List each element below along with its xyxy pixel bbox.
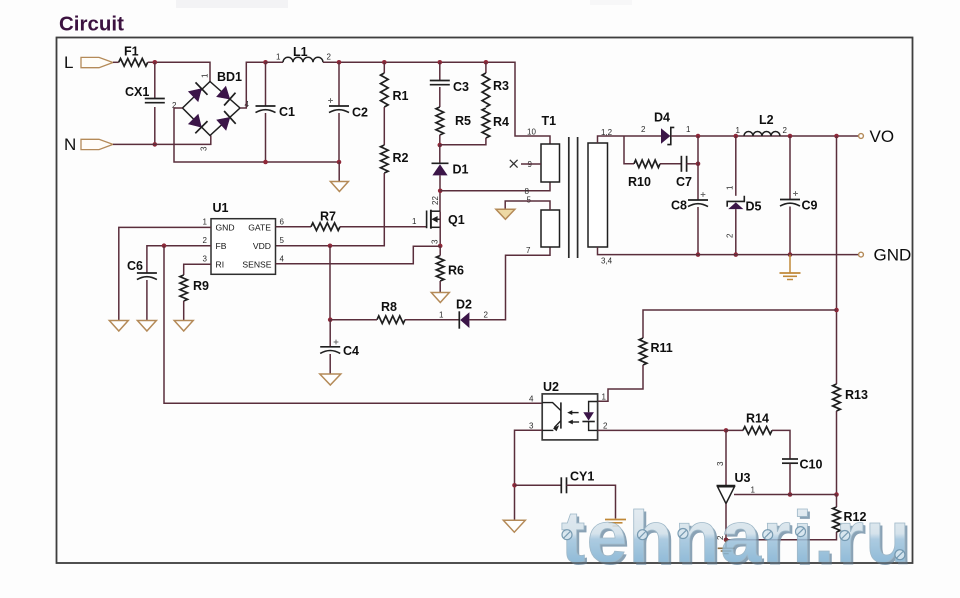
svg-text:2: 2 xyxy=(203,236,208,245)
svg-text:VO: VO xyxy=(870,127,895,146)
svg-text:D5: D5 xyxy=(746,200,762,214)
wire R4 to junction xyxy=(440,138,486,145)
svg-text:D4: D4 xyxy=(654,111,670,125)
diode D5 zener xyxy=(727,196,744,207)
wire U1 pin2 FB xyxy=(147,246,211,273)
top watermark sliver xyxy=(176,0,288,8)
border frame overlay xyxy=(57,38,913,564)
wire junction to R14 xyxy=(726,429,743,431)
wire CX1 bottom lead xyxy=(154,107,156,144)
resistor R4 xyxy=(482,108,490,138)
svg-text:C4: C4 xyxy=(343,344,359,358)
svg-text:C3: C3 xyxy=(453,80,469,94)
wire C9 bottom xyxy=(789,207,791,255)
wire U3 ref down xyxy=(725,430,727,485)
wire U3 earth stem xyxy=(725,540,727,548)
svg-text:CX1: CX1 xyxy=(125,85,149,99)
junction R11 tap xyxy=(834,308,839,313)
junction R13/U3 pin1 xyxy=(834,492,839,497)
ground C6 xyxy=(137,321,156,332)
resistor R7 xyxy=(311,223,340,231)
capacitor C3 xyxy=(430,80,450,82)
svg-text:1: 1 xyxy=(439,311,444,320)
earth ground secondary xyxy=(780,272,801,274)
bridge diode lower-left xyxy=(189,114,202,127)
junction C8/GND rail xyxy=(696,252,701,257)
junction C10/U3 pin1 xyxy=(788,492,793,497)
wire C4 to ground xyxy=(329,354,331,374)
wire T1 secondary bottom GND rail xyxy=(598,247,859,255)
diode D1 xyxy=(432,162,449,164)
wire R10 branch down xyxy=(624,136,634,164)
wire Q1 source to R6 xyxy=(439,246,441,256)
resistor R5 xyxy=(436,107,444,135)
svg-text:3: 3 xyxy=(200,146,209,151)
resistor R8 xyxy=(377,316,405,324)
junction rail/C1 xyxy=(263,60,268,65)
svg-text:C2: C2 xyxy=(352,106,368,120)
svg-text:Circuit: Circuit xyxy=(59,13,124,36)
wire D4 to VO rail xyxy=(671,135,859,137)
svg-text:10: 10 xyxy=(527,128,536,137)
wire rail to R1 xyxy=(383,62,385,73)
wire U1 pin6 to R7 xyxy=(276,226,312,228)
svg-text:C8: C8 xyxy=(671,199,687,213)
junction R5/R4/D1 xyxy=(438,143,443,148)
junction VO/R13 xyxy=(834,134,839,139)
ground T1 pin5 xyxy=(496,209,515,219)
wire R11 to U2 pin1 xyxy=(598,365,643,401)
svg-text:2: 2 xyxy=(726,233,735,238)
svg-text:FB: FB xyxy=(216,241,227,251)
wire U1 pin3 RI xyxy=(184,264,211,275)
svg-text:5: 5 xyxy=(527,196,532,205)
wire L to F1 xyxy=(113,61,119,63)
optocoupler U2 box xyxy=(542,394,597,440)
wire R12 to bottom rail xyxy=(726,532,837,540)
wire C8 column xyxy=(697,136,699,200)
wire R6 to ground xyxy=(439,281,441,292)
svg-text:R8: R8 xyxy=(381,300,397,314)
wire BD1 pin4 up to rail xyxy=(240,62,266,108)
svg-text:R2: R2 xyxy=(393,151,409,165)
svg-text:R14: R14 xyxy=(746,412,769,426)
svg-text:2: 2 xyxy=(783,126,788,135)
junction VO/D5 xyxy=(734,134,739,139)
svg-text:1: 1 xyxy=(726,185,735,190)
svg-text:T1: T1 xyxy=(542,114,557,128)
terminal GND circle xyxy=(859,252,864,257)
ground U2 pin3 xyxy=(503,520,525,532)
svg-text:R13: R13 xyxy=(845,388,868,402)
junction D5/GND rail xyxy=(734,252,739,257)
wire D1 to Q1 drain xyxy=(439,175,441,211)
earth ground U3 xyxy=(718,547,735,549)
junction FB branch xyxy=(162,243,167,248)
svg-text:U1: U1 xyxy=(213,201,229,215)
earth ground CY1 xyxy=(605,519,626,521)
junction C7/C8 column xyxy=(696,162,701,167)
svg-text:1: 1 xyxy=(276,53,281,62)
resistor R11 xyxy=(639,338,647,365)
svg-text:C10: C10 xyxy=(800,458,823,472)
resistor R2 xyxy=(381,145,389,173)
diode D4 xyxy=(661,128,670,143)
svg-text:7: 7 xyxy=(526,246,531,255)
svg-text:VDD: VDD xyxy=(253,241,271,251)
wire rail L1 to corner xyxy=(323,62,550,144)
junction U3 ref xyxy=(724,428,729,433)
wire U3 pin1 xyxy=(734,494,837,496)
wire F1 to BD1 pin1 xyxy=(148,62,210,81)
wire R5 to D1 junction xyxy=(439,135,441,145)
wire junction to R12 xyxy=(836,495,838,508)
wire CY1 left xyxy=(515,484,562,486)
svg-text:3: 3 xyxy=(529,422,534,431)
junction C9/GND rail xyxy=(788,252,793,257)
wire D5 column bottom xyxy=(735,209,737,255)
wire sub-rail ground stem xyxy=(338,162,340,181)
svg-text:6: 6 xyxy=(280,218,285,227)
resistor R12 xyxy=(833,507,841,532)
wire CX1 top lead xyxy=(154,62,156,98)
U1 pin names xyxy=(216,223,272,270)
svg-text:3: 3 xyxy=(716,461,725,466)
svg-text:U3: U3 xyxy=(735,471,751,485)
svg-text:1: 1 xyxy=(602,393,607,402)
resistor R1 xyxy=(381,73,389,107)
wire U1 pin1 to ground xyxy=(119,227,211,320)
wire R2 down to VDD line xyxy=(276,173,385,246)
inductor L1 xyxy=(283,57,323,62)
resistor R13 xyxy=(833,384,841,411)
junction U3 pin2 rail xyxy=(724,538,729,543)
wire rail to C3 xyxy=(439,62,441,80)
junction VO/C8 xyxy=(696,134,701,139)
wire C1 bottom lead xyxy=(265,113,267,162)
junction F1/CX1 xyxy=(153,60,158,65)
wire U2 pin2 to R14 xyxy=(598,429,726,431)
wire C2 top lead xyxy=(338,62,340,106)
svg-text:2: 2 xyxy=(641,125,646,134)
svg-text:22: 22 xyxy=(431,196,440,205)
transformer T1 secondary winding xyxy=(588,143,608,247)
wire C8 bottom xyxy=(697,207,699,255)
wire R13 to junction xyxy=(836,411,838,495)
wire R7 to Q1 gate xyxy=(340,226,427,228)
svg-text:BD1: BD1 xyxy=(217,70,242,84)
wire U2 pin3 xyxy=(515,430,543,519)
schematic border frame xyxy=(57,38,913,564)
wire junction to D1 xyxy=(439,145,441,163)
wire C1 top lead xyxy=(265,62,267,106)
resistor R9 xyxy=(180,275,188,301)
junction CY1 xyxy=(512,483,517,488)
svg-text:GND: GND xyxy=(874,246,912,265)
U2 LED xyxy=(589,402,598,413)
wire R14 to C10 xyxy=(772,430,790,459)
svg-text:N: N xyxy=(64,135,76,154)
bridge diode lower-right xyxy=(217,117,230,130)
junction VO/C9 xyxy=(788,134,793,139)
bridge BD1 diamond xyxy=(183,82,241,136)
svg-text:5: 5 xyxy=(280,236,285,245)
svg-text:1: 1 xyxy=(412,217,417,226)
transistor Q1 xyxy=(426,211,428,229)
junction R8/C4 xyxy=(328,317,333,322)
ground primary sub-rail xyxy=(330,182,348,192)
svg-text:4: 4 xyxy=(529,395,534,404)
svg-text:1: 1 xyxy=(201,73,210,78)
wire C7 to junction xyxy=(686,163,698,165)
junction CX1/N xyxy=(153,142,158,147)
wire R9 to ground xyxy=(183,301,185,320)
wire VO down R13 column xyxy=(836,136,838,384)
svg-text:SENSE: SENSE xyxy=(242,260,271,270)
wire BD1 pin2 to bottom sub-rail xyxy=(174,108,339,162)
ground R6 xyxy=(431,293,449,303)
svg-text:R7: R7 xyxy=(320,210,336,224)
svg-text:R10: R10 xyxy=(628,175,651,189)
shunt regulator U3 xyxy=(717,485,736,487)
junction drain/T1 pin8 xyxy=(438,189,443,194)
svg-text:CY1: CY1 xyxy=(570,470,594,484)
wire earth stem secondary xyxy=(789,255,791,273)
svg-text:R1: R1 xyxy=(393,89,409,103)
svg-text:2: 2 xyxy=(603,422,608,431)
capacitor C1 xyxy=(256,105,276,107)
wire N rail xyxy=(113,136,211,145)
wire T1 secondary top xyxy=(598,136,662,143)
svg-text:3,4: 3,4 xyxy=(601,257,613,266)
svg-text:R4: R4 xyxy=(493,115,509,129)
svg-text:RI: RI xyxy=(216,260,225,270)
wire rail to R3 xyxy=(485,62,487,73)
junction VDD/C4 xyxy=(328,244,333,249)
bridge diode upper-right xyxy=(217,86,230,99)
resistor R10 xyxy=(634,160,660,168)
svg-text:3: 3 xyxy=(203,255,208,264)
svg-text:C1: C1 xyxy=(279,105,295,119)
ground R9 xyxy=(174,321,193,332)
svg-text:1: 1 xyxy=(736,126,741,135)
capacitor C10 xyxy=(782,458,798,460)
junction rail/R1 xyxy=(382,60,387,65)
svg-text:U2: U2 xyxy=(543,380,559,394)
svg-text:C7: C7 xyxy=(676,175,692,189)
transformer T1 primary upper winding xyxy=(541,144,560,182)
svg-text:tehnari.ru: tehnari.ru xyxy=(561,497,910,578)
capacitor C4 xyxy=(320,346,340,348)
transformer T1 core xyxy=(568,137,570,258)
junction C2/sub-rail xyxy=(337,160,342,165)
wire T1 pin5 to ground xyxy=(505,201,550,210)
connector N port xyxy=(81,139,113,149)
wire R11 top rail xyxy=(643,310,837,338)
wire VDD branch down xyxy=(329,246,331,320)
wire D5 column top xyxy=(735,136,737,196)
capacitor CY1 xyxy=(560,477,562,493)
ground U1 pin1 xyxy=(109,321,128,332)
no-connect X on pin9 xyxy=(510,160,518,168)
svg-text:C6: C6 xyxy=(127,259,143,273)
wire C6 to ground xyxy=(146,280,148,320)
svg-text:R5: R5 xyxy=(455,114,471,128)
inductor L2 xyxy=(744,132,780,137)
svg-text:2: 2 xyxy=(327,53,332,62)
resistor R3 xyxy=(482,73,490,107)
U2 light arrows xyxy=(570,412,579,414)
junction C1/sub-rail xyxy=(263,160,268,165)
svg-text:3: 3 xyxy=(431,239,440,244)
wire D2 to T1 pin7 xyxy=(469,247,550,320)
wire junction to R8 xyxy=(330,319,377,321)
wire R10 to C7 xyxy=(660,163,681,165)
wire junction to C4 xyxy=(329,320,331,347)
capacitor C8 xyxy=(688,199,708,201)
svg-text:Q1: Q1 xyxy=(448,213,465,227)
resistor R14 xyxy=(743,427,772,435)
capacitor C7 xyxy=(680,156,682,172)
wire C3 to R5 xyxy=(439,87,441,107)
svg-text:L1: L1 xyxy=(293,45,308,59)
diode D2 xyxy=(458,311,460,328)
wire T1 pin9 stub xyxy=(521,163,541,165)
wire C10 down xyxy=(789,464,791,495)
wire R1 to R2 xyxy=(383,107,385,145)
junction rail/C2 xyxy=(337,60,342,65)
svg-text:GATE: GATE xyxy=(248,223,271,233)
fuse F1 xyxy=(119,59,148,67)
svg-text:R11: R11 xyxy=(651,341,673,355)
ground C4 xyxy=(320,374,341,385)
wire CY1 right to earth xyxy=(566,485,615,518)
svg-text:1: 1 xyxy=(751,486,756,495)
svg-text:2: 2 xyxy=(484,311,489,320)
wire rail C1-L1 xyxy=(266,61,284,63)
svg-text:F1: F1 xyxy=(124,45,139,59)
svg-text:1: 1 xyxy=(686,125,691,134)
svg-text:GND: GND xyxy=(216,223,235,233)
wire U3 pin2 down xyxy=(725,504,727,540)
bridge diode upper-left xyxy=(189,89,202,102)
svg-text:L2: L2 xyxy=(759,113,774,127)
wire C2 bottom lead xyxy=(338,113,340,162)
junction rail/C3 xyxy=(438,60,443,65)
resistor R6 xyxy=(436,256,444,282)
svg-text:D2: D2 xyxy=(456,298,472,312)
capacitor C6 xyxy=(137,272,157,274)
svg-text:D1: D1 xyxy=(453,163,469,177)
svg-text:C9: C9 xyxy=(802,199,818,213)
svg-text:R3: R3 xyxy=(493,79,509,93)
svg-text:L: L xyxy=(64,53,73,72)
wire R8 to D2 xyxy=(405,319,459,321)
wire FB to U2 pin4 xyxy=(164,246,542,404)
wire U1 pin4 SENSE xyxy=(276,246,441,264)
capacitor CX1 xyxy=(145,98,165,100)
wire T1 pin8 xyxy=(440,182,550,191)
svg-text:R9: R9 xyxy=(193,279,209,293)
svg-text:1: 1 xyxy=(203,218,208,227)
junction rail/R3 xyxy=(484,60,489,65)
svg-text:R6: R6 xyxy=(448,264,464,278)
IC U1 box xyxy=(211,219,276,275)
capacitor C2 xyxy=(329,105,349,107)
svg-text:4: 4 xyxy=(280,255,285,264)
wire Q1 source down xyxy=(439,211,441,246)
U2 phototransistor xyxy=(542,403,561,411)
transformer T1 primary lower winding xyxy=(541,210,560,247)
terminal VO circle xyxy=(859,134,864,139)
capacitor C9 xyxy=(780,199,800,201)
junction Q1 source xyxy=(438,244,443,249)
connector L port xyxy=(81,57,113,67)
wire C9 column xyxy=(789,136,791,200)
